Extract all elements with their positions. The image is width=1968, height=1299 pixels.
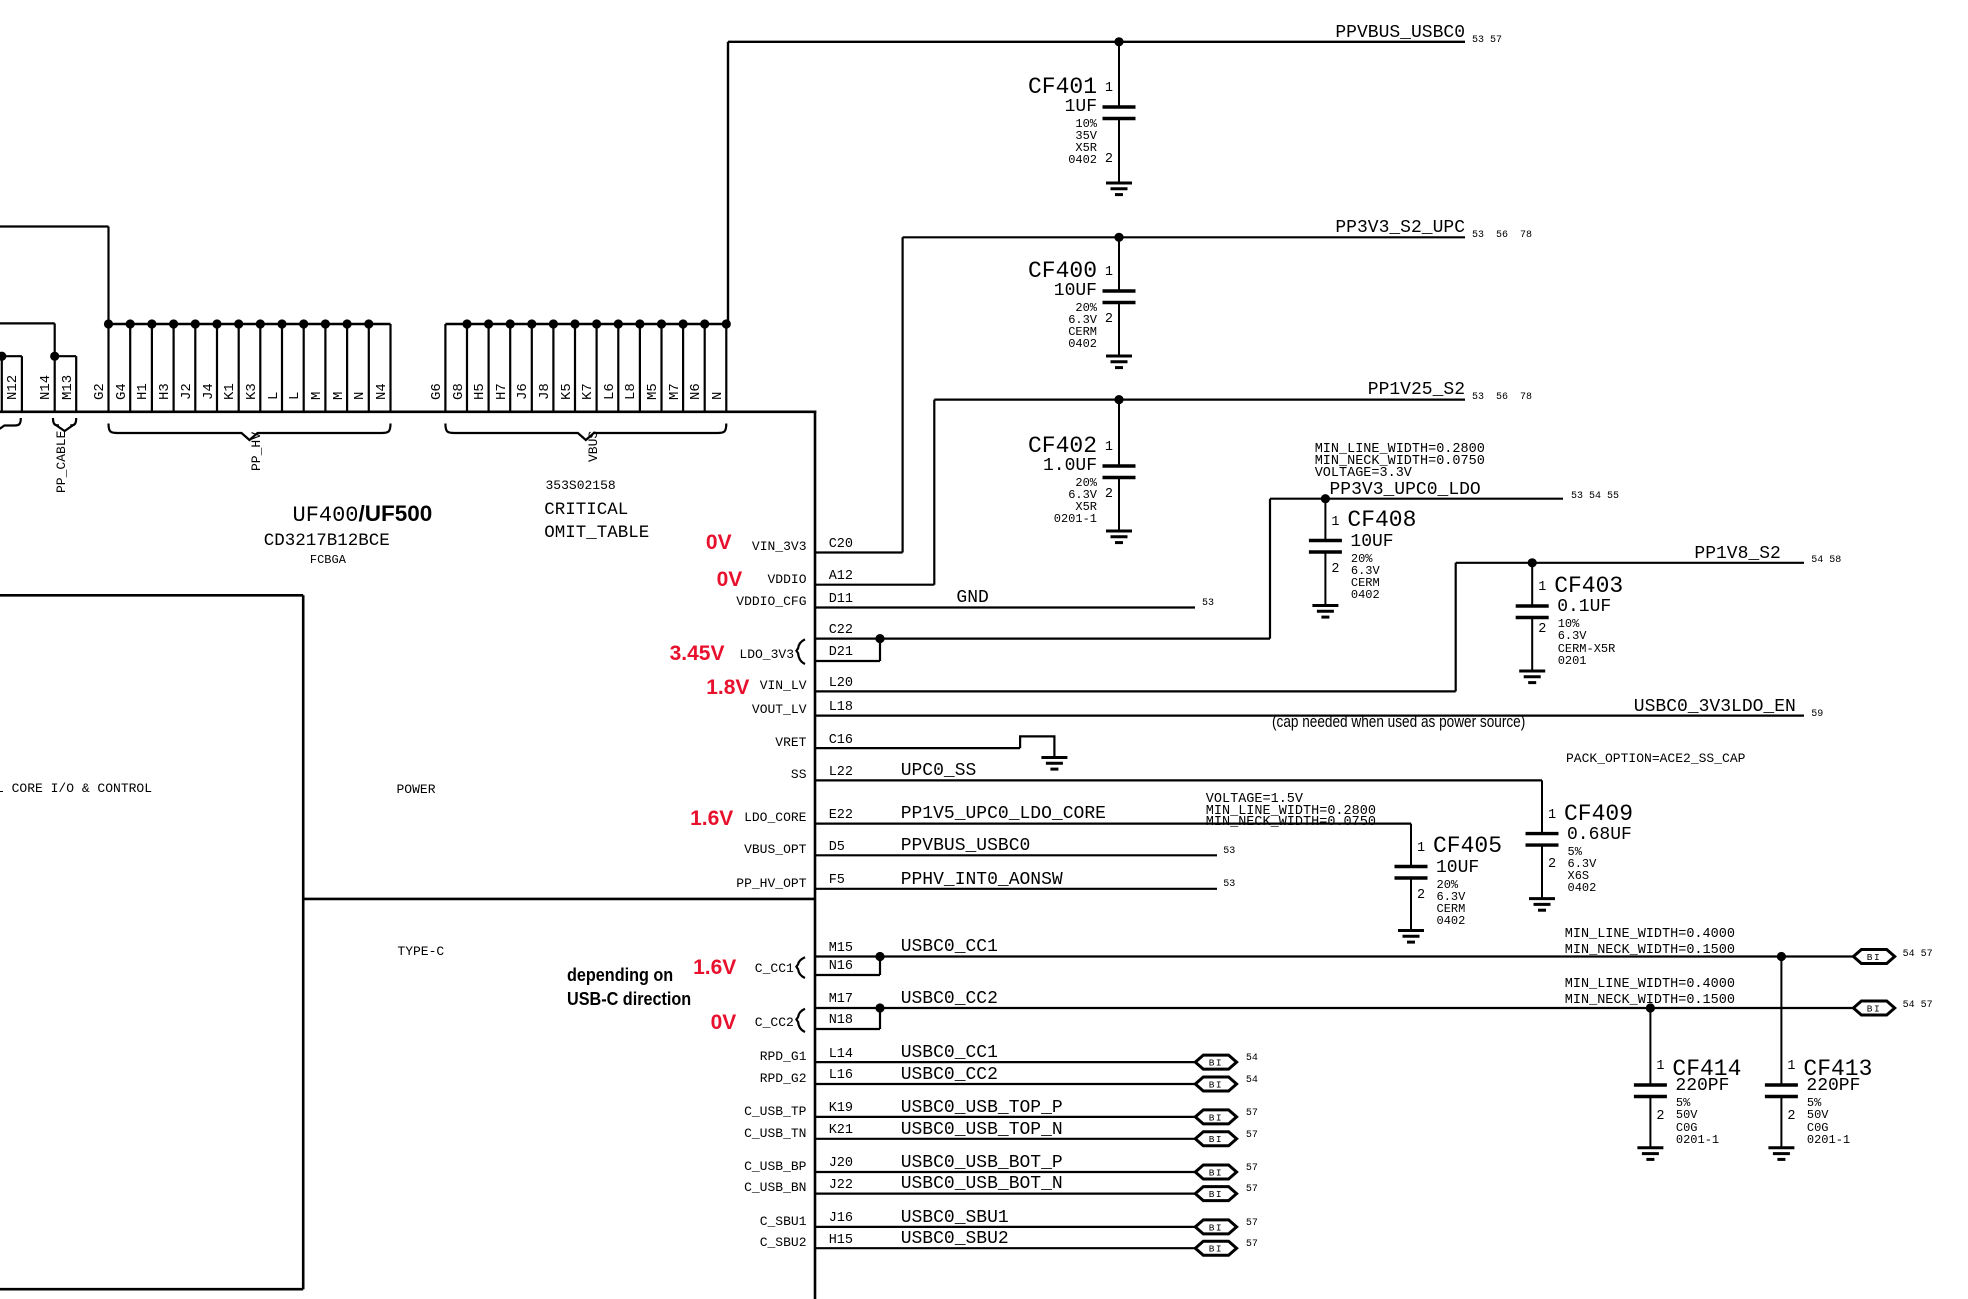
pin M15 wire [815,955,1853,957]
pin E22 wire [815,822,1411,824]
pin number L18 [829,701,853,715]
wire feed to G2 [0,225,109,227]
pin name PP_HV_OPT [736,877,806,891]
pin name C_CC1 [755,962,794,976]
capacitor CF409 bottom lead [1541,845,1543,899]
pin name M5 [646,383,661,400]
CF405 value [1436,859,1479,877]
page ref 54 y=1062.1 [1246,1054,1258,1064]
page refs CC2 [1903,1001,1933,1011]
capacitor CF403 bottom lead [1531,618,1533,672]
package FCBGA [310,554,346,566]
pin number N16 [829,960,853,974]
brace LDO_3V3 pins [796,639,805,664]
capacitor CF400 bottom lead [1118,303,1120,357]
pin J2 stub [194,324,196,413]
wire feed to G2 drop [107,227,109,325]
pin A12 wire [815,584,934,586]
page ref D5 [1223,847,1235,857]
pin G2 stub [107,324,109,413]
pin D11 wire [815,606,1195,608]
capacitor CF413 top lead [1780,957,1782,1086]
CF409 attributes [1568,846,1597,895]
pin M17 wire [815,1007,1853,1009]
net label PP3V3_S2_UPC [1335,219,1465,237]
capacitor CF408 bottom lead [1324,552,1326,606]
pin name VBUS_OPT [744,843,806,857]
offpage connector BI y=1172.0 [1195,1165,1236,1179]
pin name C_USB_BN [744,1181,806,1195]
pin L16 wire [815,1083,1195,1085]
net label USBC0_CC1 #7 [901,1044,998,1062]
net label UPC0_SS #1 [901,762,977,780]
offpage connector BI y=1062.1 [1195,1055,1236,1069]
pin number D11 [829,593,853,607]
CF413 pin 2 [1787,1110,1795,1124]
wire net PP1V8_S2 [1456,562,1804,564]
net label PPVBUS_USBC0 #3 [901,837,1031,855]
pin name VIN_3V3 [752,540,807,554]
junction N14 [50,352,59,361]
page ref 57 y=1172.0 [1246,1164,1258,1174]
junction PP_HV G4 [126,319,135,328]
net label PPVBUS_USBC0 [1335,24,1465,42]
pin number N18 [829,1014,853,1028]
pin H3 stub [173,324,175,413]
CF413 value [1806,1077,1860,1095]
pin name K3 [245,383,260,400]
brace C_CC1 pins [796,957,805,978]
pin name G8 [452,383,467,400]
pin name G6 [430,383,445,400]
offpage connector BI y=1226.9 [1195,1220,1236,1234]
junction VBUS N6 [700,319,709,328]
pin name VRET [775,736,806,750]
pin name C_USB_BP [744,1160,806,1174]
CF405 refdes [1433,835,1502,858]
junction VBUS H5 [484,319,493,328]
U-F400 refdes [293,505,359,527]
capacitor CF414 bottom lead [1649,1097,1651,1148]
pin name J2 [180,383,195,400]
group label PP_CABLE [55,431,69,493]
pin K21 wire [815,1138,1195,1140]
junction CF413 on CC1 [1777,952,1786,961]
offpage connector BI y=1248.2 [1195,1241,1236,1255]
net label PP1V5_UPC0_LDO_CORE #2 [901,805,1106,823]
pin name RPD_G2 [760,1072,807,1086]
capacitor CF408 top lead [1324,499,1326,541]
junction M15/N16 [875,952,884,961]
pin L stub [303,324,305,413]
CF403 pin 2 [1538,623,1546,637]
pin L22 wire [815,779,1542,781]
net label USBC0_SBU2 #14 [901,1230,1009,1248]
voltage annotation 1.6V LDO_CORE [690,808,733,829]
pin name N [353,392,368,400]
wire D21 riser [879,639,881,661]
pin L14 wire [815,1061,1195,1063]
pin name J6 [516,383,531,400]
capacitor CF402 [1103,466,1136,478]
ground CF413 [1768,1148,1794,1160]
part attr 353S02158 [546,479,616,493]
pin L6 stub [617,324,619,413]
pin name RPD_G1 [760,1050,807,1064]
capacitor CF402 bottom lead [1118,478,1120,532]
voltage annotation 3.45V LDO_3V3 [670,643,725,664]
CF408 pin 2 [1331,563,1339,577]
page refs PP3V3_UPC0_LDO [1571,492,1619,502]
wire VIN_LV riser [1455,563,1457,692]
svg-text:BI: BI [1209,1079,1223,1090]
CF405 pin 2 [1417,889,1425,903]
pin K19 wire [815,1116,1195,1118]
pin name SS [791,768,807,782]
junction VBUS J8 [549,319,558,328]
capacitor CF401 top lead [1118,42,1120,107]
group label PP_HV [250,432,264,471]
junction PP_HV J2 [191,319,200,328]
svg-text:BI: BI [1867,1003,1881,1014]
pin number K21 [829,1124,853,1138]
pin M13 stub [75,356,77,413]
pin L8 stub [639,324,641,413]
pin number J22 [829,1179,853,1193]
CF414 value [1675,1077,1729,1095]
CF400 refdes [1028,260,1097,283]
capacitor CF408 [1309,541,1342,553]
pin name LDO_CORE [744,811,806,825]
CF414 attributes [1676,1097,1719,1146]
wire LDO_3V3 riser [1269,499,1271,639]
pin name L [288,392,303,400]
junction PP_HV K1 [234,319,243,328]
pin name VIN_LV [760,679,807,693]
brace C_CC2 pins [796,1009,805,1032]
pin H15 wire [815,1247,1195,1249]
junction PP_HV H3 [169,319,178,328]
pin name M13 [61,375,76,400]
CF405 attributes [1437,879,1466,928]
CF403 value [1557,598,1611,616]
pin name C_USB_TN [744,1127,806,1141]
CF413 pin 1 [1787,1060,1795,1074]
junction VBUS K5 [570,319,579,328]
junction VBUS N [722,319,731,328]
net label GND #0 [956,589,988,607]
svg-text:BI: BI [1209,1058,1223,1069]
pin name G4 [115,383,130,400]
junction VBUS L6 [614,319,623,328]
CF408 attributes [1351,553,1380,602]
net label USBC0_CC1 #5 [901,938,998,956]
junction PP_HV G2 [104,319,113,328]
pin N6 stub [704,324,706,413]
CF409 pin 2 [1548,858,1556,872]
page refs PP1V8_S2 [1811,556,1841,566]
net label USBC0_SBU1 #13 [901,1209,1009,1227]
junction PP_HV L [277,319,286,328]
net label USBC0_CC2 #8 [901,1066,998,1084]
page ref 57 y=1193.6 [1246,1185,1258,1195]
pin K5 stub [574,324,576,413]
pin J16 wire [815,1226,1195,1228]
pin J6 stub [531,324,533,413]
CF414 pin 1 [1656,1060,1664,1074]
capacitor CF414 [1634,1085,1667,1097]
ground CF409 [1529,899,1555,911]
net label USBC0_USB_TOP_N #10 [901,1121,1063,1139]
core block bottom edge [0,1288,303,1291]
junction VBUS M5 [657,319,666,328]
net label USBC0_3V3LDO_EN [1634,698,1796,716]
pin N stub [368,324,370,413]
CF403 refdes [1554,575,1623,598]
brace PP_CABLE group [53,418,76,431]
pin number M17 [829,993,853,1007]
net label USBC0_CC2 #6 [901,990,998,1008]
CF409 refdes [1564,803,1633,826]
part number CD3217B12BCE [264,532,390,550]
pin M stub [324,324,326,413]
capacitor CF400 [1103,291,1136,303]
junction PP_HV K3 [256,319,265,328]
capacitor CF401 bottom lead [1118,119,1120,184]
pin H1 stub [151,324,153,413]
CF413 attributes [1807,1097,1850,1146]
CF401 attributes [1068,118,1097,167]
CF408 refdes [1347,509,1416,532]
CF401 pin 2 [1105,153,1113,167]
pin number A12 [829,570,853,584]
svg-text:BI: BI [1209,1112,1223,1123]
junction CF402 [1114,395,1123,404]
pin name H1 [136,383,151,400]
pin number K19 [829,1102,853,1116]
capacitor CF401 [1103,107,1136,119]
voltage annotation 1.6V C_CC1 [693,957,736,978]
pin C22 wire [815,637,1270,639]
pin cut pin stub [1,356,3,413]
junction VBUS K7 [592,319,601,328]
brace cut-off group [0,418,21,431]
junction VBUS L8 [635,319,644,328]
pin name M7 [668,383,683,400]
junction VBUS J6 [527,319,536,328]
junction CF401 [1114,37,1123,46]
ground CF405 [1398,931,1424,943]
CF403 pin 1 [1538,581,1546,595]
CF401 pin 1 [1105,82,1113,96]
pin N16 wire [815,974,880,976]
offpage connector BI CC1 [1853,950,1894,964]
pin J4 stub [216,324,218,413]
pin F5 wire [815,888,1217,890]
voltage annotation 0V VIN_3V3 [706,532,732,553]
pin number L16 [829,1069,853,1083]
CF400 pin 2 [1105,313,1113,327]
wire N18 riser [879,1008,881,1029]
pin name C_CC2 [755,1016,794,1030]
pin name N [711,392,726,400]
part attr CRITICAL OMIT_TABLE [544,499,649,545]
junction left pin [0,352,6,361]
IC section divider POWER/TYPE-C [303,898,815,901]
pin name VDDIO_CFG [736,595,806,609]
pin name L6 [603,383,618,400]
pin name L8 [624,383,639,400]
pin name L [267,392,282,400]
svg-text:BI: BI [1209,1244,1223,1255]
pin number F5 [829,874,845,888]
pin N12 stub [21,356,23,413]
net label PPHV_INT0_AONSW #4 [901,871,1063,889]
CF400 value [1054,282,1097,300]
core block right edge [302,595,305,1289]
capacitor CF405 bottom lead [1410,878,1412,931]
pin C16 wire [815,747,1020,749]
wire PP_HV bus [109,323,391,325]
pin M5 stub [660,324,662,413]
net label USBC0_USB_TOP_P #9 [901,1099,1063,1117]
page ref 57 y=1138.8 [1246,1131,1258,1141]
ground VRET [1041,758,1067,770]
page refs PP1V25_S2 [1472,393,1532,403]
voltage annotation 0V VDDIO [717,569,743,590]
capacitor CF402 top lead [1118,400,1120,466]
wire VRET to ground [1020,736,1054,757]
pin number D5 [829,841,845,855]
pin number L22 [829,766,853,780]
pin number E22 [829,809,853,823]
pin name K1 [223,383,238,400]
voltage annotation 0V C_CC2 [711,1012,737,1033]
offpage connector BI y=1193.6 [1195,1187,1236,1201]
offpage connector BI CC2 [1853,1001,1894,1015]
pin number L14 [829,1048,853,1062]
CF402 refdes [1028,435,1097,458]
pin number L20 [829,677,853,691]
pin name C_SBU2 [760,1236,807,1250]
pin name H7 [495,383,510,400]
pin number C20 [829,538,853,552]
pin name N12 [6,375,21,400]
voltage annotation 1.8V VIN_LV [706,677,749,698]
svg-text:BI: BI [1209,1167,1223,1178]
pin name M [332,392,347,400]
ground CF414 [1637,1148,1663,1160]
CF402 pin 1 [1105,441,1113,455]
page ref 57 y=1116.9 [1246,1109,1258,1119]
page ref USBC0_3V3LDO_EN [1811,710,1823,720]
pin L20 wire [815,690,1456,692]
CF401 value [1065,98,1097,116]
CF405 pin 1 [1417,842,1425,856]
ground CF401 [1106,183,1132,195]
pin G6 stub [444,324,446,413]
attr PACK_OPTION [1566,752,1745,766]
CF413 refdes [1803,1058,1872,1081]
brace VBUS group [445,424,726,441]
offpage connector BI y=1138.8 [1195,1132,1236,1146]
pin name J8 [538,383,553,400]
wire mini bus N14-M13 [55,355,76,357]
net label PP1V25_S2 [1368,381,1465,399]
capacitor CF405 [1395,867,1428,879]
junction CF400 [1114,233,1123,242]
pin name C_USB_TP [744,1105,806,1119]
page ref 57 y=1226.9 [1246,1219,1258,1229]
page refs PPVBUS_USBC0 [1472,36,1502,46]
junction PP_HV M [343,319,352,328]
net label PP1V8_S2 [1694,545,1780,563]
pin name N14 [39,375,54,400]
wire mini bus left pins [0,355,22,357]
wire net PP3V3_S2_UPC [903,236,1465,238]
CF400 pin 1 [1105,266,1113,280]
wire feed to N14 [0,322,55,324]
wire feed to N14 drop [54,323,56,356]
offpage connector BI y=1116.9 [1195,1110,1236,1124]
group label VBUS [587,431,601,462]
pin number C22 [829,624,853,638]
ground CF408 [1312,606,1338,618]
pin name K5 [560,383,575,400]
pin M7 stub [682,324,684,413]
pin name N6 [689,383,704,400]
CF414 refdes [1672,1058,1741,1081]
capacitor CF405 top lead [1410,824,1412,867]
CF401 refdes [1028,76,1097,99]
page ref 54 y=1084.0 [1246,1076,1258,1086]
pin name C_SBU1 [760,1215,807,1229]
CF409 pin 1 [1548,809,1556,823]
pin G8 stub [466,324,468,413]
pin D21 wire [815,660,880,662]
net label USBC0_USB_BOT_N #12 [901,1175,1063,1193]
CF403 attributes [1558,618,1616,667]
pin K1 stub [238,324,240,413]
wire N16 riser [879,957,881,976]
section label TYPE-C [397,945,444,959]
junction PP_HV J4 [212,319,221,328]
CF408 pin 1 [1331,516,1339,530]
junction M17/N18 [875,1003,884,1012]
junction CF414 on CC2 [1646,1003,1655,1012]
core block top edge [0,594,303,597]
section label POWER [397,783,436,797]
CF408 value [1350,533,1393,551]
svg-text:BI: BI [1209,1222,1223,1233]
pin D5 wire [815,854,1217,856]
page ref F5 [1223,880,1235,890]
pin J20 wire [815,1171,1195,1173]
capacitor CF409 top lead [1541,780,1543,833]
pin M stub [346,324,348,413]
junction PP_HV L [299,319,308,328]
CF402 attributes [1054,477,1097,526]
junction PP_HV H1 [147,319,156,328]
ground CF403 [1519,671,1545,683]
pin N stub [725,324,727,413]
note cap needed [1272,713,1525,730]
pin name J4 [202,383,217,400]
pin number J20 [829,1157,853,1171]
CF400 attributes [1068,302,1097,351]
page refs CC1 [1903,950,1933,960]
junction C22/D21 [875,634,884,643]
